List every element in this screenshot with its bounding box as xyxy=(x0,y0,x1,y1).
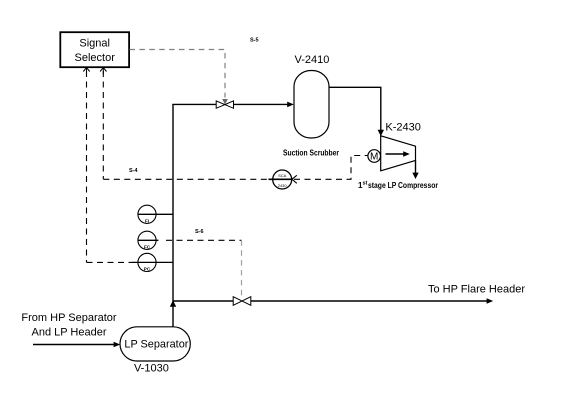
svg-text:To HP Flare Header: To HP Flare Header xyxy=(428,284,525,296)
svg-text:S-4: S-4 xyxy=(129,168,139,174)
signal wire dashed: SCA to motor xyxy=(294,156,368,180)
wire: compressor discharge arrow xyxy=(412,160,418,179)
label S-4 xyxy=(129,168,139,174)
arrowhead into SCA circle xyxy=(292,175,297,183)
signal selector box U1 xyxy=(60,32,129,67)
svg-text:From HP Separator: From HP Separator xyxy=(21,312,117,324)
label V-2410 xyxy=(295,54,330,66)
svg-text:And LP Header: And LP Header xyxy=(31,326,106,338)
label From HP Separator And LP Header xyxy=(21,312,117,338)
wire: scrubber outlet to compressor with arrow xyxy=(329,87,384,136)
svg-text:M: M xyxy=(370,152,378,163)
svg-text:LP Separator: LP Separator xyxy=(124,338,188,350)
instrument FI circle xyxy=(138,205,173,223)
signal selector input arrow 1 xyxy=(83,68,89,74)
label S-5 xyxy=(250,38,259,44)
wire: top pipe to valve xyxy=(172,103,216,105)
label To HP Flare Header xyxy=(428,284,525,296)
compressor flow arrow xyxy=(386,151,410,157)
label S-6 xyxy=(195,229,204,235)
svg-text:PC: PC xyxy=(144,267,151,272)
svg-text:Suction Scrubber: Suction Scrubber xyxy=(283,149,339,158)
label V-1030 xyxy=(134,363,169,375)
svg-text:V-1030: V-1030 xyxy=(134,363,169,375)
wire: main vertical pipe xyxy=(172,104,174,327)
svg-text:K-2430: K-2430 xyxy=(385,122,420,134)
signal wire dashed: selector to S-4 (vertical) xyxy=(102,71,104,179)
signal selector input arrow 2 xyxy=(100,68,106,74)
signal wire S-4 dashed horizontal to instrument xyxy=(103,178,268,180)
instrument SCA speed controller circle xyxy=(269,170,292,189)
svg-text:V-2410: V-2410 xyxy=(295,54,330,66)
wire: inlet line to separator with arrow xyxy=(33,342,120,348)
signal wire S-6 dashed horizontal xyxy=(166,239,242,241)
label K-2430 xyxy=(385,122,420,134)
signal wire S-6 dashed vertical to flare valve xyxy=(241,240,243,297)
motor M circle xyxy=(368,150,381,163)
svg-text:S-6: S-6 xyxy=(195,229,204,235)
svg-text:stage LP Compressor: stage LP Compressor xyxy=(368,181,438,190)
vessel V-2410 suction scrubber xyxy=(294,71,329,139)
svg-text:st: st xyxy=(363,181,368,187)
valve 2 (flare valve) xyxy=(233,297,251,306)
instrument FC circle xyxy=(138,231,159,249)
svg-text:FC: FC xyxy=(144,245,151,250)
label Suction Scrubber xyxy=(283,149,339,158)
svg-text:2430: 2430 xyxy=(278,183,288,188)
svg-text:Selector: Selector xyxy=(75,52,116,64)
signal wire S-5 dashed (selector to valve) xyxy=(130,50,228,105)
svg-text:SCA: SCA xyxy=(278,173,287,178)
signal wire dashed: selector to PC (vertical) xyxy=(86,71,88,262)
vessel V-1030 LP separator xyxy=(120,327,190,361)
svg-text:S-5: S-5 xyxy=(250,38,259,44)
instrument PC circle xyxy=(132,253,174,271)
wire: flare header line xyxy=(173,298,493,304)
label 1st stage LP Compressor xyxy=(358,181,438,191)
svg-text:FI: FI xyxy=(145,219,149,224)
compressor K-2430 xyxy=(381,136,416,171)
wire: pipe valve to scrubber with arrow xyxy=(234,102,294,108)
svg-text:Signal: Signal xyxy=(79,38,110,50)
valve 1 (suction control) xyxy=(216,101,233,108)
node: junction arrow up at flare tee xyxy=(170,300,176,306)
signal wire dashed: corner to PC (horizontal) xyxy=(87,261,132,263)
